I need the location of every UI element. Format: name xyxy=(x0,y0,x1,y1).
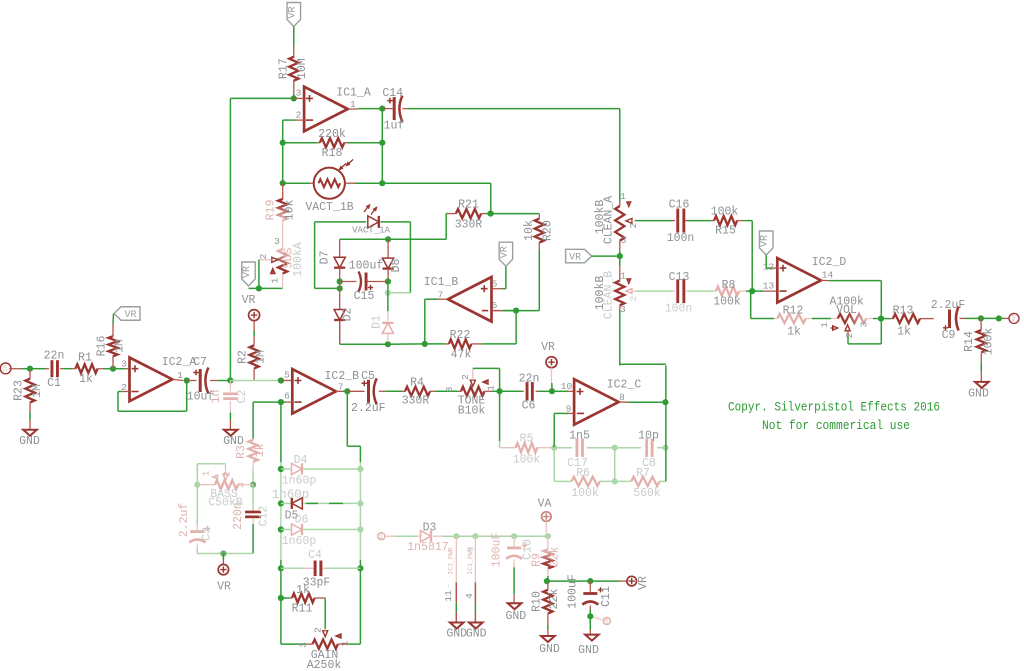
svg-text:1: 1 xyxy=(620,191,626,202)
svg-text:100uf: 100uf xyxy=(349,260,384,273)
svg-text:VOL: VOL xyxy=(836,304,857,317)
svg-text:IC2_C: IC2_C xyxy=(607,379,642,392)
svg-text:Not for commerical use: Not for commerical use xyxy=(762,418,910,433)
svg-text:100k: 100k xyxy=(983,328,996,356)
svg-text:VR: VR xyxy=(499,246,510,258)
svg-text:R1: R1 xyxy=(78,351,92,364)
svg-text:VR: VR xyxy=(637,576,650,590)
svg-text:GND: GND xyxy=(539,643,560,656)
svg-text:3: 3 xyxy=(620,304,626,315)
svg-text:R13: R13 xyxy=(893,305,914,318)
svg-text:11: 11 xyxy=(443,590,454,602)
svg-text:R10: R10 xyxy=(531,591,544,612)
svg-text:IC1_B: IC1_B xyxy=(424,276,459,289)
svg-text:5: 5 xyxy=(492,279,498,290)
svg-text:R11: R11 xyxy=(292,603,313,616)
svg-text:3: 3 xyxy=(236,482,247,488)
svg-text:CLEAN_B: CLEAN_B xyxy=(603,271,616,319)
svg-text:R9: R9 xyxy=(531,553,544,567)
svg-text:8: 8 xyxy=(468,546,477,551)
svg-text:VR: VR xyxy=(760,235,771,247)
svg-text:100k: 100k xyxy=(711,206,739,219)
svg-text:IC2_PWR: IC2_PWR xyxy=(447,547,454,574)
svg-text:R14: R14 xyxy=(963,331,976,352)
svg-text:D1: D1 xyxy=(371,315,384,329)
svg-text:D4: D4 xyxy=(294,454,308,467)
svg-text:2.2uf: 2.2uf xyxy=(178,503,191,538)
svg-text:1k: 1k xyxy=(897,326,911,339)
svg-text:GND: GND xyxy=(466,628,487,641)
svg-text:CLEAN_A: CLEAN_A xyxy=(603,196,616,244)
svg-text:D3: D3 xyxy=(423,522,437,535)
svg-text:2: 2 xyxy=(296,110,302,121)
svg-text:R12: R12 xyxy=(783,305,804,318)
svg-text:GND: GND xyxy=(578,644,599,657)
svg-text:3: 3 xyxy=(296,88,302,99)
svg-text:1n60p: 1n60p xyxy=(272,488,310,502)
svg-text:100k: 100k xyxy=(513,454,541,467)
svg-text:14: 14 xyxy=(822,270,834,281)
svg-text:10M: 10M xyxy=(296,58,309,79)
svg-text:220k: 220k xyxy=(318,128,346,141)
svg-text:100k: 100k xyxy=(713,296,741,309)
svg-text:2.2uF: 2.2uF xyxy=(931,299,966,312)
svg-text:D2: D2 xyxy=(342,308,355,322)
svg-text:R6: R6 xyxy=(576,467,590,480)
svg-text:2: 2 xyxy=(628,222,639,228)
svg-text:R20: R20 xyxy=(541,220,554,241)
svg-text:R19: R19 xyxy=(265,200,278,221)
svg-text:in: in xyxy=(2,365,9,372)
svg-text:VACT_1A: VACT_1A xyxy=(352,226,390,236)
svg-text:1n: 1n xyxy=(210,390,223,404)
svg-text:1n5817: 1n5817 xyxy=(407,541,448,554)
svg-text:VR: VR xyxy=(569,253,581,264)
svg-text:VR: VR xyxy=(242,294,256,307)
svg-text:C4: C4 xyxy=(308,549,322,562)
svg-text:R2: R2 xyxy=(237,350,250,364)
svg-text:2: 2 xyxy=(258,253,269,259)
svg-text:C2: C2 xyxy=(236,390,249,404)
svg-text:R21: R21 xyxy=(458,199,479,212)
svg-text:R15: R15 xyxy=(715,225,736,238)
svg-text:R8: R8 xyxy=(722,279,736,292)
svg-text:6: 6 xyxy=(492,300,498,311)
svg-text:IC1_A: IC1_A xyxy=(336,86,371,99)
svg-text:1k: 1k xyxy=(79,373,93,386)
svg-text:4: 4 xyxy=(464,593,475,599)
svg-text:1k: 1k xyxy=(787,326,801,339)
svg-text:13: 13 xyxy=(763,281,775,292)
svg-text:1M: 1M xyxy=(255,350,268,364)
svg-text:1k: 1k xyxy=(254,444,267,458)
svg-text:100k: 100k xyxy=(571,487,599,500)
svg-text:A250k: A250k xyxy=(307,659,342,671)
svg-text:560k: 560k xyxy=(633,487,661,500)
svg-text:9V: 9V xyxy=(377,532,384,539)
svg-text:C1: C1 xyxy=(47,377,61,390)
svg-text:C15: C15 xyxy=(354,290,375,303)
svg-text:C16: C16 xyxy=(669,199,690,212)
svg-text:VR: VR xyxy=(287,6,298,18)
svg-text:C7: C7 xyxy=(193,356,207,369)
svg-text:1: 1 xyxy=(270,277,281,283)
svg-text:R16: R16 xyxy=(96,336,109,357)
svg-text:out: out xyxy=(1010,313,1017,323)
svg-text:2: 2 xyxy=(460,374,471,380)
svg-text:GND: GND xyxy=(968,388,989,401)
svg-text:VR: VR xyxy=(217,581,231,594)
svg-text:B10k: B10k xyxy=(458,405,486,418)
svg-text:47k: 47k xyxy=(451,349,472,362)
svg-text:C5: C5 xyxy=(361,370,375,383)
svg-text:3: 3 xyxy=(298,642,309,648)
svg-text:100uF: 100uF xyxy=(567,574,580,609)
svg-text:100n: 100n xyxy=(665,303,693,316)
svg-text:R3: R3 xyxy=(235,445,248,459)
svg-text:R5: R5 xyxy=(520,433,534,446)
svg-text:22n: 22n xyxy=(519,373,540,386)
svg-text:1n5: 1n5 xyxy=(569,430,590,443)
svg-text:3: 3 xyxy=(274,236,280,247)
svg-text:22n: 22n xyxy=(44,350,65,363)
svg-text:R18: R18 xyxy=(322,147,343,160)
svg-text:VA: VA xyxy=(538,498,552,511)
svg-text:22k: 22k xyxy=(548,589,561,610)
svg-text:VR: VR xyxy=(603,617,610,624)
svg-text:100uF: 100uF xyxy=(491,533,504,568)
svg-text:100n: 100n xyxy=(667,232,695,245)
svg-text:1k: 1k xyxy=(296,584,310,597)
svg-text:3: 3 xyxy=(621,235,627,246)
svg-text:Copyr. Silverpistol Effects 20: Copyr. Silverpistol Effects 2016 xyxy=(728,400,940,415)
svg-text:GND: GND xyxy=(505,610,526,623)
svg-text:1uf: 1uf xyxy=(384,119,405,132)
svg-text:3: 3 xyxy=(121,359,127,370)
svg-text:1: 1 xyxy=(620,271,626,282)
svg-text:C3: C3 xyxy=(201,527,214,541)
svg-text:1M: 1M xyxy=(114,339,127,353)
svg-text:R17: R17 xyxy=(277,58,290,79)
svg-text:VR: VR xyxy=(124,310,136,321)
svg-text:2: 2 xyxy=(844,332,855,338)
svg-text:IC2_A: IC2_A xyxy=(162,356,197,369)
svg-text:C50kB: C50kB xyxy=(208,497,243,510)
svg-text:R4: R4 xyxy=(410,377,424,390)
svg-text:R7: R7 xyxy=(636,467,650,480)
svg-text:GND: GND xyxy=(19,435,40,448)
svg-text:D8: D8 xyxy=(390,259,403,273)
svg-text:5: 5 xyxy=(284,370,290,381)
svg-text:C14: C14 xyxy=(382,87,403,100)
svg-text:330R: 330R xyxy=(455,219,483,232)
svg-text:330R: 330R xyxy=(402,395,430,408)
svg-text:VACT_1B: VACT_1B xyxy=(305,201,353,214)
svg-text:1n60p: 1n60p xyxy=(282,535,317,548)
svg-text:GND: GND xyxy=(446,628,467,641)
svg-text:10: 10 xyxy=(561,381,573,392)
svg-text:D7: D7 xyxy=(319,251,332,265)
svg-text:D6: D6 xyxy=(295,514,309,527)
svg-text:1M: 1M xyxy=(31,384,44,398)
svg-text:3: 3 xyxy=(444,386,455,392)
svg-text:6: 6 xyxy=(284,391,290,402)
svg-text:1: 1 xyxy=(819,322,830,328)
svg-text:1: 1 xyxy=(201,470,212,476)
svg-text:10p: 10p xyxy=(638,430,659,443)
svg-text:1: 1 xyxy=(486,385,497,391)
svg-text:10k: 10k xyxy=(523,220,536,241)
svg-text:C9: C9 xyxy=(942,329,956,342)
svg-text:100kA: 100kA xyxy=(292,242,305,277)
svg-text:22k: 22k xyxy=(549,547,562,568)
svg-text:C11: C11 xyxy=(600,586,613,607)
svg-text:R23: R23 xyxy=(13,380,26,401)
svg-text:3: 3 xyxy=(859,321,870,327)
svg-text:R22: R22 xyxy=(450,329,471,342)
svg-text:2: 2 xyxy=(313,627,324,633)
svg-text:-: - xyxy=(445,584,454,589)
svg-text:C12: C12 xyxy=(258,506,271,527)
svg-text:IC2_D: IC2_D xyxy=(812,256,847,269)
svg-text:2.2uF: 2.2uF xyxy=(351,402,386,415)
svg-text:VR: VR xyxy=(541,341,555,354)
svg-text:12: 12 xyxy=(763,262,775,273)
svg-text:C13: C13 xyxy=(669,271,690,284)
svg-text:2: 2 xyxy=(222,471,233,477)
svg-text:10k: 10k xyxy=(284,200,297,221)
svg-text:2: 2 xyxy=(628,295,639,301)
svg-text:C6: C6 xyxy=(522,400,536,413)
svg-text:VR: VR xyxy=(242,266,253,278)
svg-text:1n60p: 1n60p xyxy=(282,475,317,488)
